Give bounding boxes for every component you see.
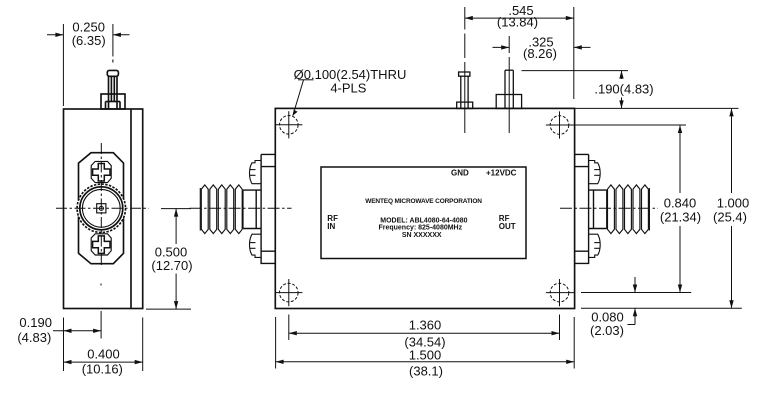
svg-text:1.360: 1.360 [409, 318, 442, 333]
flange screw top phillips cross [93, 164, 110, 182]
dim .545 ext+line+arrows [464, 7, 466, 30]
svg-text:OUT: OUT [499, 222, 516, 231]
+12VDC pin centerline [508, 57, 510, 133]
+12VDC pin (top, larger base) [496, 70, 521, 108]
end view vertical centerline [100, 143, 102, 267]
dim 1.360 line+arrows [289, 332, 560, 334]
main body top edge extension to right [575, 107, 739, 109]
hole center ext right bottom [581, 292, 691, 294]
GND pin (top, capped) [457, 72, 473, 109]
svg-text:1.500: 1.500 [409, 348, 442, 363]
dim .325 ext+line+arrows [508, 36, 510, 53]
SMA coax ring 2 [80, 187, 123, 230]
mounting hole BL [275, 279, 302, 306]
RF IN barrel [243, 190, 261, 228]
flange screw top head octagon [91, 161, 111, 182]
svg-text:(13.84): (13.84) [497, 15, 538, 30]
dim 0.840 line+arrows [679, 125, 681, 193]
RF IN connector threads [200, 185, 242, 234]
svg-text:(8.26): (8.26) [523, 46, 557, 61]
svg-text:(38.1): (38.1) [409, 364, 443, 379]
SMA coax outer knurled ring [77, 184, 125, 232]
RF OUT centerline [560, 207, 658, 209]
svg-text:(25.4): (25.4) [713, 210, 747, 225]
mounting hole TR [546, 111, 575, 138]
mounting hole BR [546, 279, 575, 306]
dim 0.500 vertical line and arrows [175, 209, 177, 244]
svg-text:IN: IN [327, 222, 335, 231]
end view body [64, 109, 143, 309]
svg-text:.190(4.83): .190(4.83) [594, 82, 653, 97]
RF OUT flange plate [574, 154, 588, 263]
svg-text:1.000: 1.000 [717, 196, 750, 211]
main body bottom edge extension to right [581, 307, 742, 309]
svg-text:WENTEQ MICROWAVE CORPORATION: WENTEQ MICROWAVE CORPORATION [365, 198, 482, 205]
svg-text:(6.35): (6.35) [72, 33, 106, 48]
end view lid split line [130, 109, 132, 309]
svg-text:0.400: 0.400 [87, 347, 120, 362]
dim 0.190 (end view) line and arrows [53, 330, 101, 332]
end view horizontal centerline [56, 207, 149, 209]
dim 0.080 arrows + elbow [634, 277, 636, 293]
svg-text:(2.03): (2.03) [590, 323, 624, 338]
end view bottom ext lines [63, 318, 65, 372]
SMA end flange top boss octagon [79, 153, 124, 211]
RF OUT connector threads [608, 185, 650, 234]
svg-text:GND: GND [451, 169, 469, 178]
SMA center pin square [97, 204, 106, 213]
svg-text:(4.83): (4.83) [17, 330, 51, 345]
end view pin centerline [112, 60, 114, 63]
dim 0.250 ext lines [62, 24, 64, 106]
end view DC pin cap [107, 70, 118, 76]
svg-text:Frequency: 825-4080MHz: Frequency: 825-4080MHz [378, 225, 462, 232]
bottom ext lines (main view) [275, 317, 277, 369]
hole callout leader [298, 79, 314, 81]
RF IN flange plate [261, 154, 275, 263]
hole center ext right top [570, 124, 686, 126]
flange screw bottom head octagon [91, 234, 111, 255]
end view DC pin shaft [108, 76, 110, 109]
flange screw bottom phillips cross [93, 236, 110, 254]
RF IN flange screw bottom [250, 234, 262, 257]
RF OUT flange screw bottom [589, 234, 601, 257]
SMA end flange bottom boss octagon [79, 206, 124, 264]
GND pin centerline [464, 34, 466, 59]
dim 0.400 line and arrows [64, 361, 143, 363]
svg-text:0.190: 0.190 [19, 315, 52, 330]
RF IN flange screw top [250, 161, 262, 184]
RF OUT barrel [589, 190, 607, 228]
dim 1.000 line+arrows [731, 108, 733, 193]
svg-text:4-PLS: 4-PLS [330, 81, 366, 96]
dim 1.500 line+arrows [276, 361, 575, 363]
SMA coax ring 3 [82, 189, 120, 227]
svg-text:MODEL: ABL4080-64-4080: MODEL: ABL4080-64-4080 [380, 218, 467, 225]
svg-text:0.840: 0.840 [664, 196, 697, 211]
label plate texts [327, 169, 516, 239]
svg-text:(12.70): (12.70) [151, 258, 192, 273]
dim 0.250 arrows [47, 34, 63, 36]
main view body [275, 108, 574, 308]
dim .190 vertical at right of pins [522, 70, 629, 72]
mounting hole TL [275, 111, 302, 138]
svg-text:+12VDC: +12VDC [486, 169, 517, 178]
RF OUT flange screw top [589, 161, 601, 184]
svg-text:(21.34): (21.34) [660, 210, 701, 225]
label plate [321, 167, 526, 259]
svg-text:SN XXXXXX: SN XXXXXX [402, 232, 442, 239]
SMA center pin dot [99, 206, 103, 210]
svg-text:(10.16): (10.16) [82, 362, 123, 377]
RF IN centerline [190, 207, 292, 209]
end view DC pin base [101, 94, 125, 109]
